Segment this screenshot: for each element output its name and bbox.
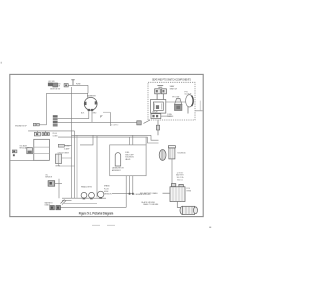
harness vertical third xyxy=(76,135,78,198)
main harness vertical right xyxy=(74,131,76,198)
wire stop lead xyxy=(39,124,46,126)
wire feed drop xyxy=(87,85,89,93)
wire engine drop right lower xyxy=(132,176,134,194)
headlamp L3 xyxy=(98,191,104,197)
svg-text:IGNITION SW: IGNITION SW xyxy=(50,88,61,90)
wire stop lead drop xyxy=(46,93,48,125)
junction dot right xyxy=(132,193,134,195)
connector J4 xyxy=(137,121,141,125)
interlock relay module K1 xyxy=(151,100,166,114)
svg-text:SOLENOID: SOLENOID xyxy=(177,152,186,154)
stop lead connector pair xyxy=(33,123,36,126)
svg-text:CONN: CONN xyxy=(167,114,173,116)
svg-text:SPARK: SPARK xyxy=(104,185,110,188)
wire engine drop left upper xyxy=(129,137,131,145)
wire cross lead xyxy=(58,117,89,119)
wire mid riser xyxy=(96,136,98,197)
svg-text:RED: RED xyxy=(93,113,97,115)
fuse symbol xyxy=(71,80,74,86)
PTO switch S2 xyxy=(175,98,182,110)
seat switch S1 xyxy=(155,86,167,100)
svg-text:TENSION: TENSION xyxy=(104,193,112,195)
fuel solenoid body xyxy=(115,153,121,166)
wire sensor lead xyxy=(55,182,62,184)
svg-text:HEADLIGHTS: HEADLIGHTS xyxy=(81,186,93,189)
wire stub riser xyxy=(109,112,111,126)
wire long harness lead xyxy=(58,121,137,123)
wire battery to starter xyxy=(177,202,180,208)
svg-text:RELAY: RELAY xyxy=(152,111,158,114)
svg-text:MAGNETO: MAGNETO xyxy=(45,201,54,204)
svg-text:SENSOR: SENSOR xyxy=(45,176,53,178)
wire switch feed xyxy=(68,84,88,86)
svg-text:SW: SW xyxy=(57,85,60,87)
main harness vertical left xyxy=(71,87,73,198)
wire drop to engine box xyxy=(145,137,147,145)
svg-text:TERM: TERM xyxy=(186,190,191,192)
wire bend to starter solenoid xyxy=(151,135,159,140)
border frame of diagram sheet xyxy=(10,74,203,216)
svg-text:VALVE: VALVE xyxy=(125,158,131,161)
wire breaker down lead xyxy=(59,164,75,167)
wire headlight run xyxy=(62,197,106,199)
wire: enclosure drop diagonal xyxy=(144,120,151,123)
wire stub along frame xyxy=(199,101,201,111)
wire: enclosure bottom drop xyxy=(157,120,159,135)
dashed enclosure: seat and PTO switch components xyxy=(148,82,195,120)
lamp feet xyxy=(83,197,102,199)
clutch lead stub xyxy=(187,107,189,114)
key switch body xyxy=(34,131,49,136)
wire ammeter drop right xyxy=(91,111,93,122)
wire harness bus lower xyxy=(58,136,148,138)
junction dot left xyxy=(129,193,131,195)
wire magneto upper lead xyxy=(62,199,72,201)
svg-text:BLK: BLK xyxy=(81,113,85,115)
PTO clutch coil xyxy=(186,95,194,107)
ignition switch cluster xyxy=(48,83,68,88)
regulator side module xyxy=(27,148,33,154)
page speck xyxy=(209,227,211,228)
key switch lower run xyxy=(28,130,74,132)
wire xyxy=(161,115,173,117)
inline connector J6 xyxy=(156,125,159,130)
wire bottom run xyxy=(61,206,127,208)
wire fuse lead xyxy=(64,145,71,147)
voltage regulator box xyxy=(34,139,50,160)
wire exits enclosure right xyxy=(195,110,203,112)
svg-text:BCI U1: BCI U1 xyxy=(177,179,183,181)
wire stub horizontal xyxy=(103,111,110,113)
svg-text:ASSEMBLY: ASSEMBLY xyxy=(112,169,122,172)
circuit breaker body xyxy=(56,154,62,163)
fastener mark xyxy=(100,116,102,118)
wire magneto mid lead xyxy=(64,202,97,204)
wire solenoid to battery xyxy=(171,159,173,184)
starter solenoid assembly xyxy=(159,146,175,161)
svg-text:IGN: IGN xyxy=(57,83,61,85)
frame tab connector xyxy=(12,150,17,153)
svg-text:CONN: CONN xyxy=(53,135,59,137)
svg-text:SEAT AND PTO SWITCH COMPONENTS: SEAT AND PTO SWITCH COMPONENTS xyxy=(152,78,191,81)
battery B1 xyxy=(170,184,185,202)
svg-text:TO ENGINE GROUND: TO ENGINE GROUND xyxy=(133,194,151,196)
svg-text:ENGINE STOP: ENGINE STOP xyxy=(15,125,27,127)
wire battery cable xyxy=(163,192,171,194)
headlamp L1 xyxy=(81,192,87,198)
svg-text:AMMETER: AMMETER xyxy=(87,95,96,98)
footer dash marks below frame xyxy=(92,224,115,226)
harness connector pin stack xyxy=(53,115,58,126)
headlamp L2 xyxy=(89,192,95,198)
wire engine drop left lower xyxy=(129,176,131,194)
wire seat switch to clutch xyxy=(166,101,186,103)
wire ammeter drop left xyxy=(88,111,90,119)
wire engine drop right upper xyxy=(132,135,134,145)
svg-text:CABLE TO ENGINE: CABLE TO ENGINE xyxy=(143,203,159,206)
wire breaker lead xyxy=(62,157,72,159)
svg-text:OIL: OIL xyxy=(45,174,48,176)
ammeter gauge xyxy=(84,93,97,111)
wire cross run xyxy=(47,92,89,94)
frame bolt mark xyxy=(13,154,15,156)
hatch marks xyxy=(61,200,67,205)
harness riser step xyxy=(80,135,93,145)
svg-text:16 GA RED: 16 GA RED xyxy=(111,124,120,127)
starter motor M1 xyxy=(180,206,198,214)
scanner noise dot xyxy=(1,62,2,64)
wire regulator ground xyxy=(10,160,34,162)
fuse holder block xyxy=(58,144,64,147)
wire bend lower to starter solenoid xyxy=(148,137,159,143)
wire spark plug lead xyxy=(112,193,133,195)
svg-text:SWITCH: SWITCH xyxy=(170,89,178,91)
wire harness bus upper xyxy=(72,134,152,136)
svg-text:PLUG: PLUG xyxy=(53,133,58,135)
engine connector block A xyxy=(50,206,55,210)
svg-text:Figure 5-1. Pictorial Diagram: Figure 5-1. Pictorial Diagram xyxy=(79,211,114,215)
hour meter sensor xyxy=(48,181,55,187)
svg-text:VOLTAGE: VOLTAGE xyxy=(20,144,27,147)
wire sensor riser xyxy=(58,179,60,198)
svg-text:POS: POS xyxy=(186,188,189,190)
engine connector block B xyxy=(56,206,61,210)
wire riser to engine box xyxy=(125,176,127,208)
svg-text:15 AMP: 15 AMP xyxy=(64,148,70,151)
connector J5 in enclosure xyxy=(151,114,161,119)
engine box enclosure xyxy=(110,145,146,176)
